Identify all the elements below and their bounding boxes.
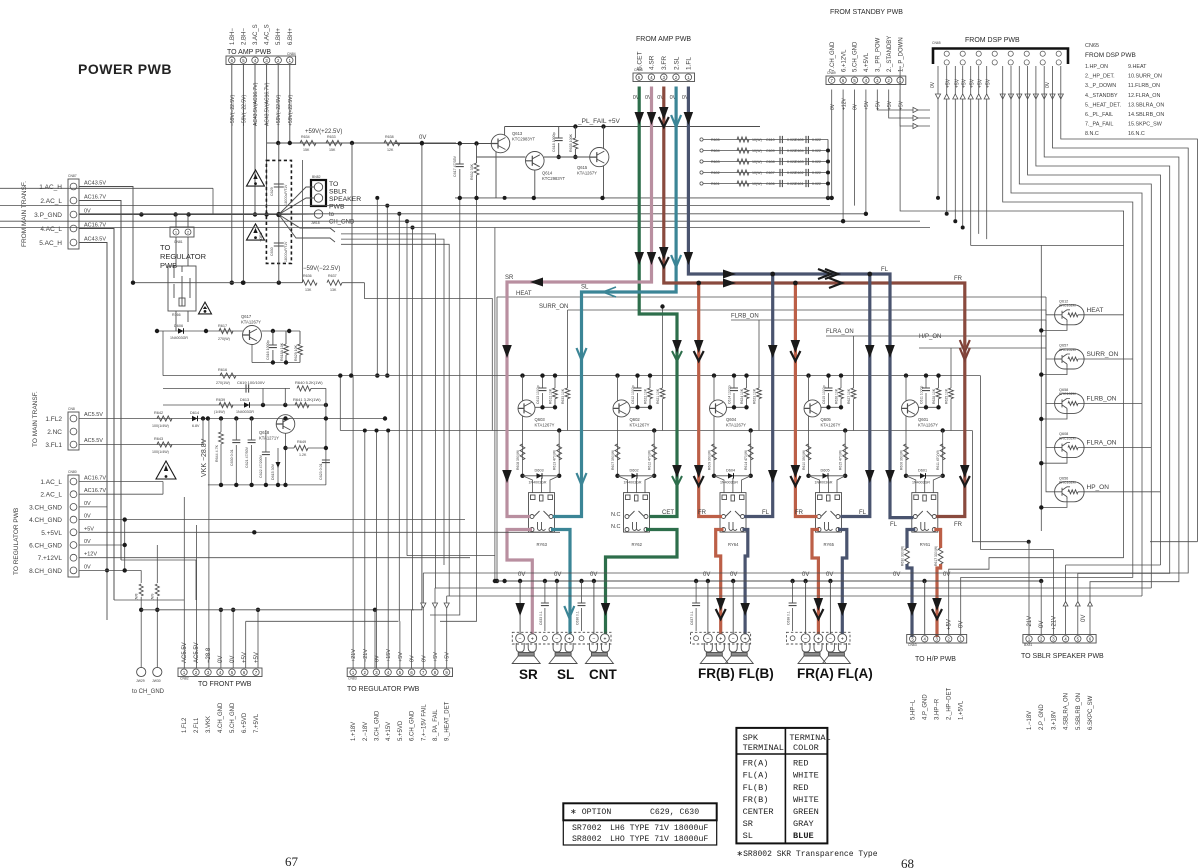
svg-text:RED: RED (793, 783, 808, 793)
svg-text:REGULATOR: REGULATOR (160, 252, 207, 261)
svg-text:D605: D605 (821, 469, 830, 473)
svg-text:2.BH−: 2.BH− (241, 28, 247, 45)
svg-text:1: 1 (175, 231, 177, 235)
wire bundle 8 to CN83 pin7 (423, 66, 1188, 573)
svg-text:+5V: +5V (962, 78, 968, 88)
resistor R612 470(W) (652, 444, 657, 460)
wire diode row to relay pins (714, 476, 724, 493)
svg-text:Q614: Q614 (542, 171, 553, 176)
wire emitter to bus (1041, 456, 1067, 464)
resistor R608 390(W) (520, 444, 525, 460)
resistor R643 100(1/4W) (157, 442, 172, 447)
svg-text:R617: R617 (218, 324, 227, 328)
svg-text:1N4003GR: 1N4003GR (529, 481, 547, 485)
svg-text:0.022: 0.022 (812, 160, 821, 164)
svg-text:AC16.7V: AC16.7V (84, 488, 106, 494)
resistor R622 10K (649, 376, 651, 388)
svg-text:C606: C606 (766, 182, 775, 186)
svg-text:+5V: +5V (876, 100, 882, 110)
svg-text:GREEN: GREEN (793, 807, 819, 817)
svg-text:CN65: CN65 (932, 41, 941, 45)
snubber row R601 (703, 183, 828, 185)
arrow SL left chevron (603, 287, 616, 297)
capacitor C637 0.1 (695, 581, 697, 603)
svg-text:12K: 12K (387, 148, 394, 152)
svg-text:+: + (719, 636, 722, 642)
svg-text:FR(A): FR(A) (743, 759, 769, 769)
row R639 D613 R641 (163, 404, 326, 406)
svg-text:R628 10K: R628 10K (932, 388, 936, 404)
wire diode row to relay pins (906, 476, 916, 493)
wire SL teal from CN88 (553, 87, 676, 517)
svg-text:0V: 0V (84, 564, 91, 570)
terminal strip FR(B) FL(B) (691, 632, 751, 644)
speaker FL(B) (725, 643, 753, 664)
svg-text:SR: SR (505, 275, 514, 281)
svg-text:0V: 0V (1045, 81, 1051, 88)
svg-text:2._STANDBY: 2._STANDBY (887, 36, 893, 72)
svg-text:0V: 0V (84, 514, 91, 520)
resistor R606 390(W) (904, 444, 909, 460)
svg-text:+5V: +5V (254, 652, 260, 663)
svg-text:KRC102M: KRC102M (1059, 304, 1076, 308)
svg-text:to CH_GND: to CH_GND (132, 689, 165, 695)
svg-text:5.BH+: 5.BH+ (276, 28, 282, 45)
wires CN81 pins up (175, 215, 177, 228)
resistor R618A 10K (285, 331, 287, 344)
svg-text:−: − (519, 636, 522, 642)
diode D605 1N4003GR (806, 474, 810, 478)
svg-text:4.SBLRA_ON: 4.SBLRA_ON (1064, 693, 1070, 730)
wire pills bundle continue down (1123, 315, 1125, 558)
svg-text:0V: 0V (1081, 615, 1087, 622)
svg-text:LH6 TYPE 71V 18000uF: LH6 TYPE 71V 18000uF (610, 824, 708, 833)
svg-text:R640 5.2K(1W): R640 5.2K(1W) (295, 380, 323, 385)
wires BX81 pins 1-3 up (1028, 542, 1030, 635)
svg-text:1.−18V: 1.−18V (1027, 711, 1033, 730)
svg-text:CN82: CN82 (180, 677, 189, 681)
jumper JW18 to CH_GND (314, 210, 322, 218)
svg-text:5._HEAT_DET.: 5._HEAT_DET. (1085, 102, 1121, 108)
svg-text:+: + (568, 636, 571, 642)
svg-text:KTC2983YT: KTC2983YT (512, 137, 535, 142)
capacitor C611 1000p (925, 376, 927, 388)
resistor R633 10K (567, 376, 569, 388)
resistor R628 10K (938, 376, 940, 388)
bus base y375 (163, 375, 981, 377)
fan wires from option node to SBLR connector (279, 187, 314, 215)
connector CN80 (68, 475, 79, 577)
wire base from bus (1046, 336, 1055, 448)
wire emitter to bus (1041, 500, 1067, 508)
svg-text:R617 330(W): R617 330(W) (934, 546, 938, 566)
bus horizontal y221 (0, 220, 920, 222)
svg-text:1.AC_L: 1.AC_L (40, 479, 62, 486)
connector CN89 FROM STANDBY PWB (826, 76, 906, 85)
svg-text:Q604: Q604 (726, 417, 737, 422)
svg-text:Q602: Q602 (630, 417, 641, 422)
wire bottom Q617 row (265, 362, 300, 364)
svg-text:+12V: +12V (841, 98, 847, 110)
svg-text:∗ OPTION: ∗ OPTION (570, 808, 611, 817)
svg-text:Q603: Q603 (535, 417, 546, 422)
svg-text:BX81: BX81 (1024, 643, 1032, 647)
svg-text:SURR_ON: SURR_ON (1087, 351, 1119, 358)
svg-text:TO MAIN TRANSF.: TO MAIN TRANSF. (32, 391, 39, 447)
svg-text:1._P_DOWN: 1._P_DOWN (898, 37, 904, 72)
open arrows left cluster (935, 94, 940, 99)
wire Q613 emitter down (495, 152, 497, 198)
svg-text:R641 3.2K(1W): R641 3.2K(1W) (293, 397, 321, 402)
svg-text:8.CH_GND: 8.CH_GND (29, 568, 62, 575)
wire FL branch to relay RY65 (841, 274, 870, 517)
resistor R625 10K (950, 376, 952, 388)
wire branch down from +59V rail (351, 143, 353, 376)
svg-text:−59V(−22.5V): −59V(−22.5V) (230, 95, 236, 126)
svg-text:HEAT: HEAT (516, 291, 532, 297)
dashed box option capacitors (266, 160, 291, 263)
resistor R626 10K (840, 376, 842, 388)
svg-text:CH_GND: CH_GND (329, 220, 355, 226)
svg-text:4.+15V: 4.+15V (386, 722, 392, 741)
wire right leg down (844, 431, 846, 476)
wires CN82 pins up (183, 497, 185, 668)
diode D614 6.8V (192, 416, 198, 421)
open arrows right cluster (1000, 94, 1005, 99)
diode D602 1N4003GR (615, 474, 619, 478)
svg-text:SL: SL (581, 285, 589, 291)
svg-text:+: + (817, 636, 820, 642)
connector CN81 (170, 227, 194, 237)
svg-text:10(W): 10(W) (752, 171, 762, 175)
resistor R614 470(W) (748, 444, 753, 460)
svg-text:CNT: CNT (589, 667, 617, 682)
svg-text:6.CH_GND: 6.CH_GND (29, 543, 62, 550)
resistor R630 330(W) on HP-L (905, 548, 910, 564)
resistor R632 33K (476, 144, 478, 164)
svg-text:0V: 0V (421, 655, 427, 662)
svg-text:R633: R633 (327, 135, 336, 139)
svg-text:8._PA_FAIL: 8._PA_FAIL (433, 709, 439, 741)
svg-text:0V: 0V (930, 81, 936, 88)
svg-text:C636 0.1: C636 0.1 (576, 611, 580, 625)
wire FL navy from CN88 (688, 87, 913, 518)
svg-text:C607: C607 (766, 171, 775, 175)
terminal strip SR SL CNT (512, 632, 611, 644)
jumper JW30 (153, 667, 162, 676)
wire FLRA_ON drop to Q605 block (853, 336, 855, 376)
open triangles pins 4-6 (1063, 602, 1068, 607)
svg-text:R613 470(W): R613 470(W) (553, 450, 557, 470)
svg-text:2.AC_L: 2.AC_L (40, 198, 62, 205)
svg-text:+5V: +5V (242, 652, 248, 663)
capacitor C615 1000p (828, 376, 830, 388)
svg-text:KTA1271Y: KTA1271Y (259, 436, 279, 441)
svg-text:+5V: +5V (398, 652, 404, 662)
wires CN89 pins down (831, 90, 833, 198)
svg-text:R635 100K: R635 100K (569, 133, 573, 152)
wire 0V from CN87 pin3 (79, 214, 279, 216)
svg-text:CN81: CN81 (174, 240, 183, 244)
diode D606 (178, 328, 184, 334)
svg-text:D601: D601 (918, 469, 927, 473)
svg-text:FROM DSP PWB: FROM DSP PWB (1085, 52, 1136, 59)
svg-text:10(W): 10(W) (752, 138, 762, 142)
resistor R624 10K (746, 376, 748, 388)
wire FL(A) relay out (838, 530, 847, 635)
svg-text:R639: R639 (216, 398, 225, 402)
resistor R611 470(W) (940, 444, 945, 460)
resistor JW9 small (155, 584, 159, 596)
svg-text:+5V: +5V (947, 619, 953, 630)
capacitor C638 0.1 (792, 581, 794, 603)
wire H/P_ON drop to Q601 block (950, 348, 952, 376)
wire emitter to bus (1041, 323, 1067, 331)
resistor R610 390(W) (806, 444, 811, 460)
wire AC5.5V from CN8 pin3 (79, 444, 203, 446)
svg-text:KTA1267Y: KTA1267Y (630, 423, 650, 428)
svg-text:+: + (744, 636, 747, 642)
warning triangle upper (247, 170, 265, 186)
junction dots on 0V bus (502, 579, 506, 583)
svg-text:1N4003GR: 1N4003GR (720, 481, 738, 485)
svg-text:KTA1267Y: KTA1267Y (577, 171, 597, 176)
svg-text:−59V(−22.5V): −59V(−22.5V) (241, 95, 247, 126)
svg-text:2.SL: 2.SL (673, 56, 680, 70)
svg-text:R614 470(W): R614 470(W) (744, 450, 748, 470)
svg-text:3._PR_POW: 3._PR_POW (876, 37, 882, 72)
wire -59V jog down right (365, 283, 493, 431)
svg-text:R601: R601 (711, 182, 720, 186)
resistor R617b 330(W) on HP-R (938, 548, 943, 564)
svg-text:11.FLRB_ON: 11.FLRB_ON (1128, 83, 1160, 89)
svg-text:FL(A): FL(A) (743, 771, 769, 781)
arrows row0 under CN88 (635, 112, 645, 125)
svg-text:JW9: JW9 (151, 593, 155, 600)
capacitor C619 100/100V row (163, 387, 290, 389)
resistor R617 270(W) (219, 328, 233, 333)
svg-text:D604: D604 (726, 469, 735, 473)
connector CN84 TO AMP PWB (226, 56, 296, 65)
svg-text:−: − (804, 636, 807, 642)
svg-text:2: 2 (187, 231, 189, 235)
svg-text:KRC102M: KRC102M (1059, 481, 1076, 485)
svg-text:0V: 0V (84, 501, 91, 507)
svg-text:CN8: CN8 (68, 407, 75, 411)
svg-text:FL: FL (881, 267, 889, 273)
svg-text:3.VKK: 3.VKK (206, 716, 212, 733)
svg-text:Q617: Q617 (241, 314, 252, 319)
svg-text:JW18: JW18 (311, 221, 320, 225)
svg-text:+21V: +21V (1051, 616, 1057, 630)
svg-text:4.SR: 4.SR (649, 55, 656, 70)
svg-text:TERMINAL: TERMINAL (789, 733, 830, 743)
svg-text:2.P_GND: 2.P_GND (1039, 704, 1045, 730)
svg-text:18000uF/71V: 18000uF/71V (284, 241, 288, 262)
emitter bus right column (1040, 245, 1042, 531)
svg-text:5.HP−L: 5.HP−L (911, 699, 917, 720)
left bus verticals down (106, 243, 108, 571)
wires SBLR pins 4-6 up (1065, 565, 1067, 602)
warning triangle mid-left (156, 461, 176, 479)
svg-text:1.HP_ON: 1.HP_ON (1085, 64, 1108, 70)
svg-text:C618 1000p: C618 1000p (552, 132, 556, 152)
svg-text:1.FL2: 1.FL2 (45, 416, 62, 423)
svg-text:13K: 13K (305, 288, 312, 292)
capacitor C622 47/200V (265, 430, 267, 452)
svg-text:FLRA_ON: FLRA_ON (826, 329, 854, 335)
svg-text:CN80: CN80 (68, 470, 77, 474)
wire base line Q614 (477, 156, 526, 158)
wire right leg down (653, 431, 655, 476)
transistor Q608 KRC102M (1055, 438, 1085, 458)
speaker SR (512, 643, 540, 664)
svg-text:C629, C630: C629, C630 (650, 808, 699, 817)
svg-text:CN83: CN83 (348, 677, 357, 681)
svg-text:+: + (531, 636, 534, 642)
wire emitter down (522, 416, 524, 476)
wire collector up (905, 376, 907, 401)
svg-text:18000uF/71V: 18000uF/71V (284, 184, 288, 205)
wire collector up (713, 376, 715, 401)
svg-text:TO: TO (160, 243, 170, 252)
wire base row (821, 406, 841, 408)
svg-text:15.SKPC_SW: 15.SKPC_SW (1128, 122, 1163, 128)
svg-text:C638 0.1: C638 0.1 (787, 611, 791, 625)
wire FR branch to relay RY64 (699, 283, 722, 517)
svg-text:FL: FL (859, 510, 867, 516)
resistor R607 390(W) (615, 444, 620, 460)
wire CET green from CN88 (639, 87, 677, 517)
wire PL_FAIL rail (505, 126, 760, 128)
resistor R621 10K (662, 376, 664, 388)
svg-text:1N4003GR: 1N4003GR (170, 336, 188, 340)
svg-text:R604: R604 (711, 149, 720, 153)
connector CN63 TO H/P PWB (907, 635, 967, 644)
relay RY66 power (168, 266, 196, 311)
svg-text:C614 1000p: C614 1000p (728, 385, 732, 404)
wire Q613 collector up (504, 127, 506, 136)
svg-text:C623 0.01: C623 0.01 (319, 463, 323, 480)
relay RY62 (624, 493, 650, 532)
svg-text:−: − (592, 636, 595, 642)
snubber row R605 (703, 139, 828, 141)
wire emitter to bus (1041, 367, 1067, 375)
svg-text:FR: FR (698, 510, 707, 516)
svg-text:7.CH_GND: 7.CH_GND (830, 41, 836, 72)
wire bus2 end to SBLR pin1 (972, 431, 1028, 542)
wire FR maroon from CN88 (664, 87, 965, 517)
option table C629 C630 (563, 803, 716, 845)
wires CN80 pins right (79, 481, 163, 483)
svg-text:1N4003GR: 1N4003GR (815, 481, 833, 485)
svg-text:FR: FR (795, 510, 804, 516)
transistor Q614 (526, 152, 545, 171)
wire base from bus (1046, 310, 1055, 359)
speaker FR(A) (798, 643, 826, 664)
svg-text:KTA1267Y: KTA1267Y (918, 423, 938, 428)
svg-text:7._PA_FAIL: 7._PA_FAIL (1085, 122, 1113, 128)
transistor Q605 KTA1267Y (804, 400, 821, 417)
svg-text:0.022: 0.022 (812, 149, 821, 153)
svg-text:Q613: Q613 (512, 131, 523, 136)
svg-text:1N4003GR: 1N4003GR (236, 410, 254, 414)
resistor JW8 small (139, 584, 143, 596)
transistor Q601 KTA1267Y (902, 400, 919, 417)
svg-text:FR: FR (954, 276, 963, 282)
svg-text:FLRA_ON: FLRA_ON (1087, 440, 1117, 447)
svg-text:SL: SL (743, 831, 753, 841)
wire diode row to relay pins (523, 476, 533, 493)
relay RY64 (720, 493, 746, 532)
terminal strip FR(A) FL(A) (787, 632, 851, 644)
warning triangle lower (247, 224, 265, 240)
resistor R640 5.2K(1W) (297, 386, 311, 391)
rail +21V right segment (1150, 541, 1197, 543)
svg-text:2._HP_DET.: 2._HP_DET. (1085, 74, 1115, 80)
wire aux line y188 (0, 187, 213, 189)
svg-text:SPEAKER: SPEAKER (329, 196, 361, 203)
wire -59V rail right (342, 282, 365, 284)
wire Q614 base to caps (544, 156, 590, 158)
svg-text:+5V: +5V (898, 100, 904, 110)
wire 0V into Q613 (395, 143, 491, 145)
svg-text:0.022: 0.022 (812, 138, 821, 142)
svg-text:FL: FL (890, 522, 898, 528)
svg-text:C621 47/50V: C621 47/50V (245, 446, 249, 468)
svg-text:12.FLRA_ON: 12.FLRA_ON (1128, 93, 1160, 99)
capacitor C616 1000p (272, 331, 274, 345)
svg-text:SR: SR (519, 667, 538, 682)
svg-text:3.FR: 3.FR (661, 56, 668, 70)
svg-text:R611 470(W): R611 470(W) (936, 450, 940, 470)
svg-text:R607 390(W): R607 390(W) (611, 450, 615, 470)
wire FR branch to relay RY65 (795, 283, 817, 517)
wire collector up (522, 376, 524, 401)
svg-text:TO: TO (329, 181, 338, 188)
left horizontals to bottom connectors (114, 599, 184, 601)
svg-text:C619 100/100V: C619 100/100V (237, 380, 265, 385)
svg-text:0V: 0V (1039, 621, 1045, 628)
transistor Q617 (243, 326, 262, 345)
svg-text:2.NC: 2.NC (47, 429, 62, 436)
wire x377 vertical (376, 198, 378, 376)
svg-text:C630: C630 (270, 247, 274, 256)
svg-text:R632 33K: R632 33K (470, 163, 474, 180)
svg-text:R633 10K: R633 10K (561, 388, 565, 404)
connector CN82 TO FRONT PWB (178, 668, 262, 677)
jumper JW29 (137, 667, 146, 676)
svg-text:100(1/4W): 100(1/4W) (152, 450, 169, 454)
svg-text:R618A 10K: R618A 10K (280, 342, 284, 361)
svg-text:JW29: JW29 (136, 679, 145, 683)
capacitor C630 (274, 243, 284, 246)
svg-text:C615 1000p: C615 1000p (822, 385, 826, 404)
transistor Q656 KRC102M (1055, 482, 1085, 502)
svg-text:0V: 0V (959, 621, 965, 628)
capacitor C623 0.01 (322, 460, 330, 463)
wires CN83 pins 1-4 risers (352, 376, 354, 668)
diode D604 1N4003GR (712, 474, 716, 478)
resistor R627 10K (853, 376, 855, 388)
svg-text:+5V: +5V (433, 652, 439, 662)
transistor Q613 (491, 134, 510, 153)
wire SR rose from CN88 (507, 87, 652, 517)
svg-text:2.AC_L: 2.AC_L (40, 492, 62, 499)
wire diode row to relay pins (618, 476, 628, 493)
capacitor C630b 0.01 (235, 419, 237, 441)
svg-text:+59V(+22.5V): +59V(+22.5V) (305, 129, 342, 135)
